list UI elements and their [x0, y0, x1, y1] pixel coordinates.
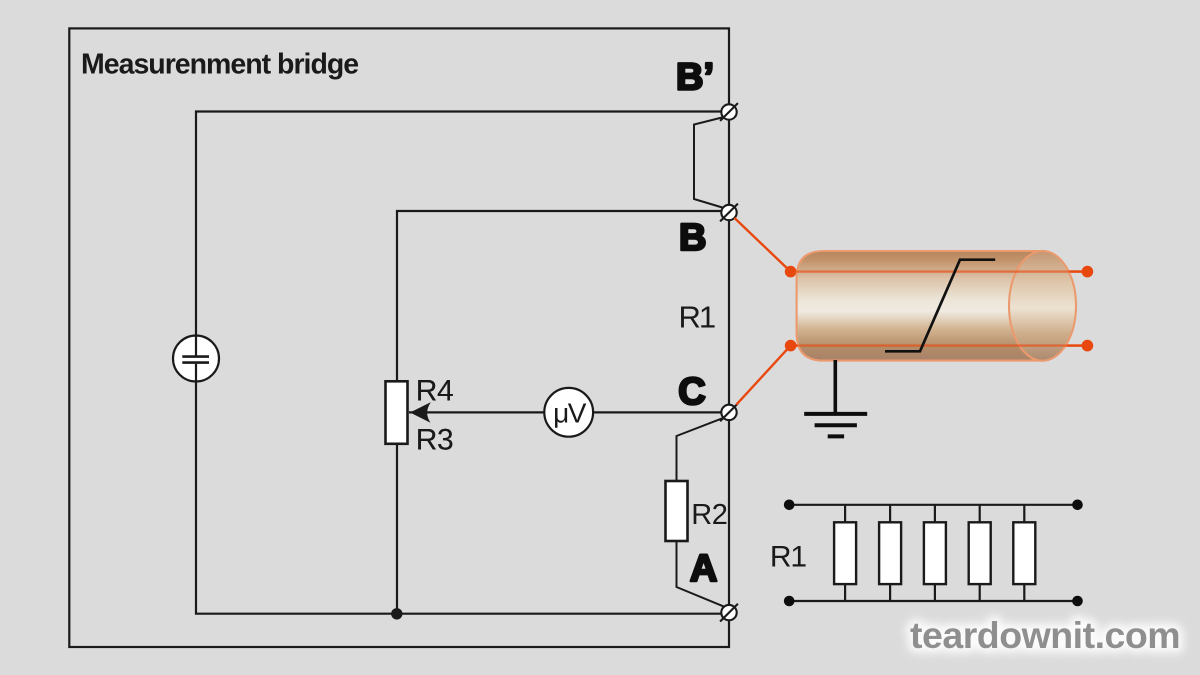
wire bottom rail: [789, 600, 1077, 602]
wire source bottom: [196, 381, 729, 614]
voltage source U: [173, 336, 219, 382]
RTD sensor end cap: [1009, 251, 1076, 361]
wire R3 bottom: [396, 444, 398, 614]
svg-text:R2: R2: [691, 499, 727, 531]
wire top rail: [789, 504, 1077, 506]
node sensor top-left: [785, 266, 797, 278]
wire uV meter row: [409, 411, 723, 413]
svg-text:R4: R4: [416, 374, 453, 407]
potentiometer R4/R3 body: [386, 381, 408, 444]
wire jumper B'-B: [694, 117, 724, 208]
ground: [804, 360, 867, 436]
svg-text:teardownit.com: teardownit.com: [910, 614, 1180, 656]
uV meter M1: [544, 388, 593, 437]
RTD sensor body: [797, 251, 1043, 361]
orange wire C to sensor: [736, 346, 790, 405]
svg-text:B: B: [679, 217, 706, 259]
orange wire B to sensor: [734, 218, 790, 272]
node sensor bottom-left: [785, 340, 797, 352]
wire top B' feed: [196, 112, 729, 337]
resistor element 5: [1013, 505, 1035, 601]
svg-text:μV: μV: [553, 398, 587, 429]
wiper arrow: [410, 402, 431, 423]
measurement bridge box: [69, 28, 729, 647]
resistor R2: [666, 481, 688, 541]
svg-text:C: C: [678, 371, 705, 413]
svg-text:R1: R1: [679, 300, 715, 335]
terminal B: [720, 204, 738, 222]
node bottom-left: [784, 596, 795, 607]
orange wire top lead over sensor: [791, 270, 1088, 272]
wire B branch: [397, 211, 729, 381]
resistor element 1: [834, 505, 856, 601]
terminal B': [720, 103, 738, 121]
RTD element symbol: [885, 260, 995, 352]
svg-text:Measurenment bridge: Measurenment bridge: [81, 49, 358, 81]
node top-right: [1072, 500, 1083, 511]
watermark teardownit.com: [910, 614, 1180, 656]
orange wire bottom lead over sensor: [791, 344, 1088, 346]
svg-text:B’: B’: [676, 57, 714, 99]
svg-text:R3: R3: [416, 424, 453, 457]
resistor element 4: [969, 505, 991, 601]
resistor element 2: [879, 505, 901, 601]
wire R2 branch: [677, 418, 724, 607]
svg-text:A: A: [690, 548, 717, 590]
orange wire sensor top lead: [791, 270, 1088, 272]
R1 equivalent network: [784, 500, 1083, 607]
orange wire sensor bottom lead: [791, 344, 1088, 346]
resistor element 3: [924, 505, 946, 601]
terminal C: [720, 404, 738, 422]
node sensor bottom-right: [1082, 340, 1094, 352]
terminal A: [720, 604, 738, 622]
node bottom-right: [1072, 596, 1083, 607]
node sensor top-right: [1082, 266, 1094, 278]
junction node: [391, 608, 402, 619]
node top-left: [784, 500, 795, 511]
svg-text:R1: R1: [770, 540, 806, 573]
